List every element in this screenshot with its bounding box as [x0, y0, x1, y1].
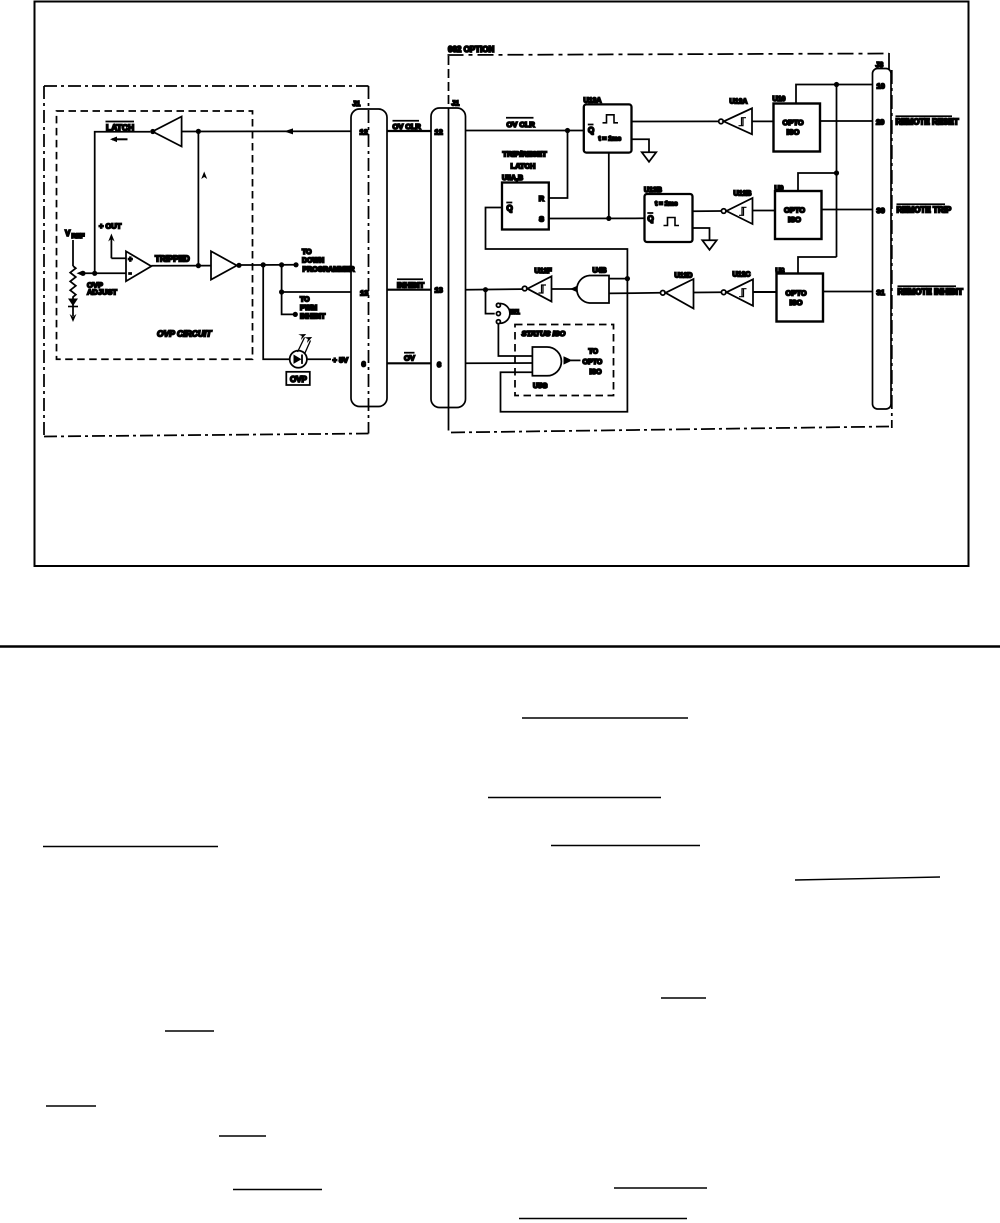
- LED arrows: [298, 334, 313, 354]
- connector J3: [873, 69, 892, 410]
- label TRIP/RESET LATCH: [503, 150, 548, 171]
- buffer triangle: [211, 251, 237, 279]
- svg-text:V: V: [65, 229, 71, 238]
- node: output/latch junction: [196, 263, 201, 268]
- connector J1 (left): [351, 109, 387, 407]
- dot at pwm wire end: [293, 312, 298, 317]
- STATUS ISO dashed box: [515, 325, 614, 396]
- svg-text:U4B: U4B: [593, 268, 607, 275]
- underline: [488, 797, 661, 799]
- wire J1 pin6 OV to U5G: [466, 362, 534, 364]
- svg-text:002 OPTION: 002 OPTION: [448, 45, 494, 54]
- jumper W1: [496, 303, 510, 324]
- dot at buffer tip: [236, 263, 241, 268]
- connector J1 (right): [431, 108, 466, 408]
- 002 option bottom dash-dot line: [451, 427, 889, 433]
- label LATCH: [106, 122, 135, 133]
- label OV CLR (right, overlined): [506, 118, 535, 129]
- 002 option left boundary line through J1: [448, 56, 450, 108]
- wire +OUT to comparator plus input: [111, 257, 126, 259]
- underline: [219, 1135, 266, 1137]
- LED indicator circle: [290, 351, 307, 368]
- wire U4B to U12D: [609, 292, 660, 295]
- svg-text:TO: TO: [300, 297, 310, 304]
- svg-text:OVP CIRCUIT: OVP CIRCUIT: [157, 329, 212, 339]
- wire U13A bottom to S wire: [608, 152, 610, 218]
- node: pin10 rail junction: [834, 82, 839, 87]
- label OV (mid, overlined): [404, 353, 415, 363]
- wire U5G output: [571, 359, 581, 361]
- svg-text:ADJUST: ADJUST: [87, 288, 117, 297]
- latch U5A,B: [502, 183, 549, 230]
- svg-text:U12A: U12A: [730, 99, 748, 106]
- wire J1-J1 OV CLR: [387, 130, 431, 132]
- wire rail to U9 top: [798, 173, 837, 191]
- underline: [233, 1189, 322, 1191]
- node: feedback junction on minus wire: [92, 271, 97, 276]
- svg-text:U12B: U12B: [734, 191, 752, 198]
- node: U9 rail junction: [834, 170, 839, 175]
- wire branch down to pin13: [282, 265, 351, 292]
- underline: [661, 997, 706, 999]
- one-shot U13B: [645, 194, 693, 242]
- svg-text:U5A,B: U5A,B: [502, 175, 523, 182]
- svg-text:DOWN: DOWN: [302, 258, 324, 265]
- label TO DOWN PROGRAMMER: [302, 249, 355, 274]
- wire U12C to U8: [753, 291, 777, 293]
- svg-text:PROGRAMMER: PROGRAMMER: [303, 267, 355, 274]
- small up arrow on vertical wire: [201, 172, 207, 180]
- ground stub U13A: [632, 139, 650, 152]
- svg-text:J1: J1: [452, 101, 460, 108]
- svg-text:+ 5V: + 5V: [333, 355, 349, 364]
- svg-text:TO: TO: [589, 349, 599, 356]
- svg-text:LATCH: LATCH: [511, 162, 536, 171]
- svg-text:12: 12: [435, 128, 443, 137]
- svg-text:U10: U10: [773, 96, 786, 103]
- label 002 OPTION: [448, 45, 494, 54]
- wire U13A output to U12A: [632, 120, 719, 122]
- label TO OPTO ISO: [583, 349, 603, 377]
- node: W1 tap on inhibit wire: [483, 287, 488, 292]
- underline: [795, 877, 940, 880]
- svg-text:Q: Q: [588, 126, 594, 135]
- NAND gate U5G: [532, 347, 572, 376]
- label OV CLR (mid): [393, 121, 422, 131]
- wire J1-J1 INHIBIT: [387, 289, 431, 291]
- schmitt inverter U12B: [721, 198, 752, 224]
- figure border frame: [35, 2, 969, 567]
- wire U12D to U12C: [694, 291, 722, 293]
- ground symbol (U13A): [642, 152, 656, 162]
- underline: [43, 846, 218, 848]
- wire U4B top input to feedback tap: [609, 278, 627, 280]
- svg-text:6: 6: [362, 360, 366, 369]
- wire U12A to U10: [752, 120, 774, 122]
- one-shot U13A: [584, 104, 632, 152]
- svg-text:OPTO: OPTO: [583, 359, 603, 366]
- node: LED branch: [261, 262, 266, 267]
- wire latch output left and down: [95, 132, 151, 273]
- label REMOTE TRIP (overlined): [897, 204, 952, 214]
- underline: [614, 1187, 707, 1189]
- wire wiper to comparator minus input: [83, 272, 126, 274]
- wire U13B output to U12B: [693, 210, 722, 212]
- 002 option right edge: [888, 53, 890, 70]
- wire J1-J1 OV: [387, 362, 431, 364]
- wire branch to pwm inhibit: [282, 292, 294, 314]
- svg-text:INHIBIT: INHIBIT: [300, 313, 326, 320]
- wire vertical from latch junction down to comparator output: [197, 131, 199, 265]
- svg-text:31: 31: [877, 288, 885, 297]
- svg-text:REMOTE RESET: REMOTE RESET: [896, 118, 959, 127]
- svg-text:ISO: ISO: [788, 215, 801, 224]
- wire VREF to potentiometer: [72, 240, 74, 266]
- ground stub U13B: [693, 228, 710, 240]
- arrow left under LATCH: [110, 137, 128, 143]
- label REMOTE RESET (overlined): [896, 116, 959, 126]
- svg-text:TRIP/RESET: TRIP/RESET: [503, 150, 548, 159]
- svg-text:STATUS ISO: STATUS ISO: [522, 329, 566, 338]
- wire U8 to J3 pin31: [823, 291, 873, 293]
- inverter U12D: [661, 279, 694, 309]
- wire U4B output to U12F: [552, 288, 575, 290]
- svg-text:OPTO: OPTO: [783, 118, 804, 127]
- diode below potentiometer: [68, 299, 78, 307]
- svg-text:OV CLR: OV CLR: [507, 120, 536, 129]
- wire LED branch down: [263, 265, 290, 359]
- svg-text:Q: Q: [507, 204, 513, 213]
- arrowhead on pin12 wire: [284, 128, 293, 134]
- OVP outer dash-dot box: [44, 86, 369, 437]
- label INHIBIT (mid, overlined): [397, 279, 425, 289]
- underline: [519, 1218, 687, 1220]
- underline: [551, 845, 700, 847]
- OVP inner dashed box: [57, 111, 253, 359]
- thick page rule: [0, 645, 1000, 648]
- svg-text:29: 29: [876, 118, 884, 127]
- svg-text:13: 13: [360, 289, 368, 298]
- svg-text:REMOTE INHIBIT: REMOTE INHIBIT: [898, 288, 963, 297]
- schmitt inverter U12A: [719, 108, 752, 134]
- node: latch feedback junction: [196, 129, 201, 134]
- node: S/U13A junction: [606, 216, 611, 221]
- node: U4B input tap on feedback: [625, 276, 630, 281]
- svg-text:10: 10: [877, 82, 885, 91]
- svg-text:R: R: [539, 194, 545, 203]
- isolated supply rail down: [836, 85, 838, 258]
- AND gate U4B (mirrored, output left): [577, 276, 609, 304]
- wire S input to U13B: [549, 217, 645, 219]
- svg-text:30: 30: [877, 206, 885, 215]
- underline: [165, 1030, 214, 1032]
- label OVP ADJUST: [87, 281, 117, 297]
- schmitt inverter U12F: [522, 276, 551, 301]
- schmitt inverter U12C: [721, 279, 753, 306]
- wire U12F to J1 pin13: [466, 288, 523, 291]
- svg-text:U8: U8: [776, 268, 785, 275]
- svg-text:W1: W1: [510, 309, 520, 316]
- wire comparator output: [151, 265, 211, 267]
- svg-text:+: +: [128, 256, 132, 263]
- wire U12B to U9: [753, 210, 776, 212]
- wire inhibit tap to W1 centre pin: [486, 290, 495, 314]
- 002 option top dash-dot line: [448, 54, 890, 56]
- wire W1 bottom pin to U5G: [498, 324, 533, 356]
- label VREF: [65, 229, 85, 240]
- wire from J1 pin12 to latch inverter: [182, 130, 351, 132]
- wire R input from OV CLR: [549, 131, 568, 199]
- wiper arrow into potentiometer: [77, 271, 83, 276]
- node: OV CLR / R junction: [565, 128, 570, 133]
- svg-text:OV: OV: [404, 354, 415, 363]
- label + OUT with up arrow: [99, 222, 122, 259]
- boxed label OVP: [286, 372, 310, 385]
- opto isolator U8: [777, 274, 824, 322]
- svg-text:OVP: OVP: [290, 375, 308, 384]
- svg-text:t = 1ms: t = 1ms: [599, 136, 622, 143]
- svg-text:OPTO: OPTO: [784, 206, 805, 215]
- inverter (latch buffer) pointing left: [153, 117, 182, 147]
- svg-text:U12D: U12D: [675, 273, 693, 280]
- svg-text:OPTO: OPTO: [786, 289, 807, 298]
- svg-text:U5G: U5G: [533, 383, 548, 390]
- potentiometer OVP ADJUST (zigzag): [70, 266, 76, 300]
- comparator op-amp: [126, 251, 151, 281]
- label REMOTE INHIBIT (overlined): [898, 286, 963, 296]
- dot at down-programmer wire end: [293, 262, 298, 267]
- wire rail to U8 top: [798, 257, 837, 274]
- svg-text:TRIPPED: TRIPPED: [155, 254, 190, 263]
- dot at latch inverter tip: [150, 129, 155, 134]
- svg-text:6: 6: [437, 360, 441, 369]
- svg-text:t = 1ms: t = 1ms: [655, 201, 678, 208]
- svg-text:S: S: [539, 215, 544, 224]
- svg-text:REF: REF: [72, 233, 85, 240]
- svg-text:ISO: ISO: [590, 369, 603, 376]
- wire U10 to J3 pin29: [820, 120, 873, 122]
- svg-text:ISO: ISO: [790, 298, 803, 307]
- wire Q feedback path: [486, 208, 628, 412]
- label TO PWM INHIBIT: [300, 297, 326, 321]
- svg-text:Q: Q: [648, 215, 654, 224]
- svg-text:U12F: U12F: [535, 268, 553, 275]
- svg-text:OV CLR: OV CLR: [393, 122, 422, 131]
- arrowhead terminal below diode: [72, 307, 74, 317]
- svg-text:U9: U9: [775, 186, 784, 193]
- svg-text:-: -: [129, 269, 132, 278]
- underline: [46, 1105, 96, 1107]
- ground symbol (U13B): [702, 240, 716, 250]
- node: wiper junction: [80, 271, 85, 276]
- svg-text:INHIBIT: INHIBIT: [397, 280, 425, 289]
- opto isolator U10: [774, 104, 821, 152]
- node: pwm branch: [279, 289, 284, 294]
- svg-text:ISO: ISO: [787, 128, 800, 137]
- svg-text:+ OUT: + OUT: [99, 222, 122, 231]
- svg-text:U13A: U13A: [584, 98, 602, 105]
- wire U10 top to pin10 line: [796, 85, 873, 104]
- svg-text:13: 13: [435, 286, 443, 295]
- underline: [522, 717, 688, 719]
- svg-text:PWM: PWM: [300, 305, 317, 312]
- wire buffer output to down-programmer: [241, 264, 296, 266]
- wire J1 pin12 to U13A (OV CLR): [466, 130, 585, 132]
- svg-text:J3: J3: [876, 62, 884, 69]
- opto isolator U9: [775, 191, 822, 239]
- svg-text:J1: J1: [353, 101, 361, 108]
- svg-text:U13B: U13B: [644, 187, 662, 194]
- node: pin13 branch: [279, 262, 284, 267]
- svg-text:12: 12: [360, 128, 368, 137]
- wire LED to +5V: [307, 358, 331, 360]
- svg-text:REMOTE TRIP: REMOTE TRIP: [897, 206, 952, 215]
- svg-text:TO: TO: [302, 249, 312, 256]
- svg-text:U12C: U12C: [733, 272, 751, 279]
- wire U9 to J3 pin30: [822, 209, 873, 211]
